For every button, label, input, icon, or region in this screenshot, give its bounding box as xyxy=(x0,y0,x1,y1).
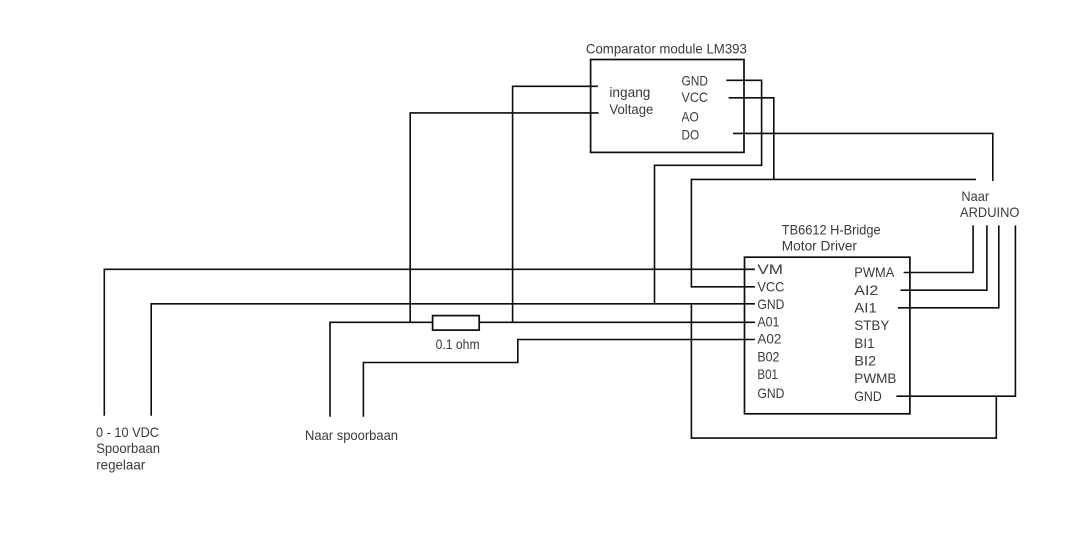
svg-text:STBY: STBY xyxy=(854,318,889,333)
svg-text:regelaar: regelaar xyxy=(96,457,145,472)
svg-text:0 - 10 VDC: 0 - 10 VDC xyxy=(96,425,159,440)
svg-text:AI1: AI1 xyxy=(854,301,877,316)
wire PWMA pin to Naar ARDUINO xyxy=(904,225,974,272)
resistor R1 0.1 ohm body xyxy=(433,316,480,331)
wire A02 net: TB6612 A02 pin to Naar spoorbaan xyxy=(363,340,755,417)
wire DO net: comparator DO to Naar ARDUINO xyxy=(733,133,993,181)
svg-text:A02: A02 xyxy=(757,332,781,347)
svg-text:Comparator module LM393: Comparator module LM393 xyxy=(586,41,747,56)
wire VM net: TB6612 VM pin to regelaar + xyxy=(104,269,755,415)
svg-text:AO: AO xyxy=(682,109,699,124)
svg-text:VCC: VCC xyxy=(757,280,784,295)
wire A01 net right segment from resistor to TB6612 A01 pin xyxy=(480,321,755,323)
svg-text:DO: DO xyxy=(682,127,700,142)
svg-text:B01: B01 xyxy=(757,367,778,382)
svg-text:Voltage: Voltage xyxy=(609,102,653,117)
svg-text:VM: VM xyxy=(757,262,783,277)
svg-text:GND: GND xyxy=(854,389,882,404)
wire AI1 pin to Naar ARDUINO xyxy=(898,225,999,307)
svg-text:ingang: ingang xyxy=(609,85,650,100)
svg-text:Spoorbaan: Spoorbaan xyxy=(96,441,160,456)
svg-text:A01: A01 xyxy=(757,315,779,330)
svg-text:GND: GND xyxy=(757,297,784,312)
svg-text:ARDUINO: ARDUINO xyxy=(960,205,1019,220)
svg-text:PWMA: PWMA xyxy=(854,265,895,280)
op-amp comparator module U1 box xyxy=(591,60,744,153)
wire GND bottom return: GND net to TB6612 right GND xyxy=(691,304,996,438)
wire GND net: TB6612 GND pin to regelaar - xyxy=(151,304,755,416)
wire TB6612 right GND pin to Naar ARDUINO xyxy=(896,225,1015,396)
IC U2 TB6612 motor driver box xyxy=(745,257,910,414)
svg-text:VCC: VCC xyxy=(682,90,709,105)
svg-text:TB6612 H-Bridge: TB6612 H-Bridge xyxy=(782,223,881,238)
svg-text:BI1: BI1 xyxy=(854,336,874,351)
wire VCC net: comparator VCC to TB6612 VCC and Naar ARDUINO xyxy=(691,98,976,287)
svg-text:B02: B02 xyxy=(757,349,779,364)
wire sense tap left of resistor to comparator Voltage xyxy=(410,113,598,322)
svg-text:Naar: Naar xyxy=(961,189,989,204)
wire AI2 pin to Naar ARDUINO xyxy=(901,225,987,290)
wire sense tap right of resistor to comparator ingang xyxy=(513,86,598,322)
svg-text:Naar spoorbaan: Naar spoorbaan xyxy=(305,428,398,443)
wire A01 net left segment to resistor xyxy=(330,322,433,417)
svg-text:GND: GND xyxy=(757,386,784,401)
wire comparator GND pin to GND net xyxy=(655,80,762,303)
svg-text:Motor Driver: Motor Driver xyxy=(782,238,858,253)
svg-text:GND: GND xyxy=(682,73,709,88)
svg-text:0.1 ohm: 0.1 ohm xyxy=(436,337,480,352)
svg-text:BI2: BI2 xyxy=(854,354,876,369)
svg-text:PWMB: PWMB xyxy=(854,371,896,386)
svg-text:AI2: AI2 xyxy=(854,283,878,298)
